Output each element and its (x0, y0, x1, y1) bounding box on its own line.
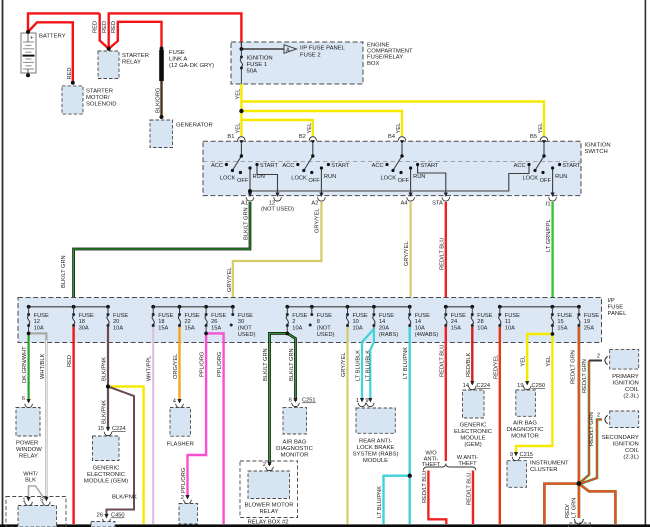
starter motor / solenoid (62, 86, 83, 114)
wire RED/LT GRN to primary coil (579, 361, 589, 484)
wire BLK/ORG fuse link to generator (160, 81, 162, 117)
svg-text:(GEM): (GEM) (464, 442, 481, 448)
wire RED/LT GRN splice to left drop (544, 484, 579, 524)
svg-text:50A: 50A (247, 69, 258, 75)
node A1 run junction (top) (248, 189, 252, 193)
svg-text:RED: RED (67, 67, 73, 79)
wire RED/LT BLU w/o anti-theft branch (428, 471, 446, 525)
svg-text:15A: 15A (185, 326, 195, 332)
fuse 22 15A (178, 313, 181, 327)
fuse 12 10A (27, 313, 30, 327)
svg-text:RELAY: RELAY (260, 509, 279, 515)
svg-text:4: 4 (173, 399, 176, 405)
svg-text:RELAY: RELAY (19, 454, 38, 460)
terminal B2 (309, 137, 317, 145)
svg-text:2: 2 (597, 413, 600, 419)
secondary ignition coil box (610, 411, 639, 428)
svg-text:B4: B4 (388, 134, 395, 140)
terminal 9 RABS (366, 398, 374, 407)
wire WHT/PPL fuse 18-15A down (152, 327, 154, 524)
svg-text:(RABS): (RABS) (379, 332, 398, 338)
svg-text:START: START (562, 163, 581, 169)
terminal A2 (318, 193, 326, 202)
svg-text:RED/LT BLU: RED/LT BLU (439, 238, 445, 270)
wire RED/LT GRN splice to right drop (579, 484, 616, 524)
svg-text:24: 24 (451, 319, 457, 325)
svg-text:RED/LT BLU: RED/LT BLU (467, 473, 473, 505)
terminal 2 blower motor relay (266, 462, 274, 471)
svg-text:LT BLU/BLK: LT BLU/BLK (365, 350, 371, 381)
svg-text:REAR ANTI-: REAR ANTI- (359, 439, 392, 445)
generic electronic module (GEM) box right (463, 390, 485, 418)
wire RED/LT GRN to secondary coil (580, 420, 603, 485)
small component box (179, 504, 198, 525)
svg-text:FUSE: FUSE (113, 313, 128, 319)
wire WHT/BLK jumper fork (29, 486, 45, 500)
fuse 11 10A (498, 313, 501, 327)
node BLK/PNK splice (106, 385, 110, 389)
svg-text:1: 1 (22, 498, 25, 504)
svg-text:LT BLU/PNK: LT BLU/PNK (377, 486, 383, 518)
wire RED/LT BLU STA to panel (445, 202, 447, 307)
terminal A1 (246, 193, 254, 202)
svg-text:9: 9 (365, 398, 368, 404)
svg-text:YEL: YEL (538, 123, 544, 134)
svg-text:GENERATOR: GENERATOR (176, 123, 213, 129)
svg-text:MONITOR: MONITOR (281, 453, 309, 459)
switch section 3 (393, 144, 446, 193)
RABS module box (356, 408, 395, 433)
wire run1 to acc4 link (250, 165, 529, 192)
svg-text:FUSE: FUSE (238, 313, 253, 319)
power window relay box (16, 408, 40, 437)
svg-text:C251: C251 (302, 398, 316, 404)
svg-text:RUN: RUN (253, 174, 265, 180)
svg-text:(2.3L): (2.3L) (623, 454, 638, 460)
svg-text:LINK A: LINK A (169, 57, 187, 63)
wire RED/LT BLU w anti-theft branch (472, 471, 474, 525)
box fragment under 26 (91, 522, 115, 527)
air bag diagnostic monitor box (right) (516, 390, 536, 416)
node fuse 2 output (top) (286, 332, 290, 336)
svg-text:14: 14 (463, 383, 469, 389)
svg-text:CLUSTER: CLUSTER (530, 467, 558, 473)
generic electronic module (GEM) box (93, 436, 120, 461)
node starter relay terminal (107, 47, 111, 51)
svg-text:OFF: OFF (308, 178, 320, 184)
svg-text:22: 22 (185, 319, 191, 325)
switch section 4 (535, 144, 553, 193)
svg-text:BLK/PNK: BLK/PNK (102, 357, 108, 381)
svg-text:19: 19 (517, 383, 523, 389)
svg-text:MODULE: MODULE (363, 458, 388, 464)
svg-text:A4: A4 (401, 201, 408, 207)
blower motor relay box (248, 471, 290, 499)
svg-text:14: 14 (379, 319, 385, 325)
svg-text:BLK/LT GRN: BLK/LT GRN (289, 348, 295, 381)
svg-text:LOCK: LOCK (523, 176, 539, 182)
svg-text:BLOWER MOTOR: BLOWER MOTOR (245, 503, 294, 509)
svg-text:(NOT: (NOT (238, 326, 252, 332)
terminal 6 power window relay (25, 399, 33, 408)
wire YEL branch from splice (108, 387, 144, 525)
svg-text:LOCK: LOCK (291, 176, 307, 182)
box fragment under RED/LT GRN terminal (569, 523, 591, 527)
wire RED battery to top rail (28, 13, 100, 32)
svg-text:19: 19 (584, 319, 590, 325)
svg-text:RED/LT GRN: RED/LT GRN (571, 350, 577, 384)
svg-text:OFF: OFF (540, 178, 552, 184)
svg-text:26: 26 (211, 319, 217, 325)
terminal B4 (398, 137, 406, 145)
svg-text:RED: RED (111, 21, 117, 33)
svg-text:15: 15 (98, 426, 104, 432)
bus A (fuses 12,18,20) (29, 306, 108, 308)
node LT BLU/PNK splice (408, 474, 412, 478)
svg-text:RED: RED (102, 21, 108, 33)
terminal 9 C215 (512, 452, 520, 461)
wire YEL fuse 15 to air bag monitor 19 (527, 334, 552, 384)
svg-text:FLASHER: FLASHER (167, 441, 194, 447)
svg-text:WINDOW: WINDOW (16, 447, 42, 453)
node fuse 2 output (286, 332, 290, 336)
wire inside box from entry (240, 42, 242, 49)
wire ORG/YEL fuse 22 to flasher (178, 327, 180, 402)
svg-text:STARTER: STARTER (86, 89, 113, 95)
svg-text:LT GRN: LT GRN (571, 498, 577, 518)
svg-text:5: 5 (40, 498, 43, 504)
svg-text:GRY/YEL: GRY/YEL (314, 208, 320, 233)
fuse 30 (NOT USED) (230, 313, 235, 327)
wire RED/LT GRN fuse 19 down (578, 327, 581, 484)
svg-text:STARTER: STARTER (122, 53, 149, 59)
svg-text:ACC: ACC (514, 163, 526, 169)
wire YEL junction to B4 (241, 111, 402, 136)
svg-text:FUSE: FUSE (353, 313, 368, 319)
fuse 10 10A (346, 313, 349, 327)
svg-text:GRY/YEL: GRY/YEL (227, 267, 233, 292)
svg-text:C224: C224 (112, 426, 126, 432)
svg-text:2: 2 (181, 495, 184, 501)
svg-text:ACC: ACC (372, 163, 384, 169)
svg-text:BLK: BLK (25, 478, 36, 484)
svg-text:10A: 10A (353, 326, 363, 332)
svg-text:COIL: COIL (625, 387, 639, 393)
svg-text:DIAGNOSTIC: DIAGNOSTIC (507, 427, 544, 433)
switch section 1 (232, 144, 277, 193)
node RED/LT GRN splice (top) (577, 481, 582, 486)
svg-text:6: 6 (22, 396, 25, 402)
bottom-left inner box (18, 506, 57, 527)
svg-text:FUSE: FUSE (211, 313, 226, 319)
label RED (x3 at starter relay) (93, 21, 117, 33)
terminal 15 C224 (104, 427, 112, 436)
svg-text:I/P: I/P (608, 298, 615, 304)
svg-text:15A: 15A (211, 326, 221, 332)
svg-text:BLK/LT GRN: BLK/LT GRN (244, 207, 250, 240)
svg-text:10: 10 (353, 319, 359, 325)
bus nodes (27, 305, 581, 309)
svg-text:B2: B2 (299, 134, 306, 140)
svg-text:RED/LT BLU: RED/LT BLU (422, 471, 428, 503)
svg-text:SYSTEM (RABS): SYSTEM (RABS) (353, 452, 399, 458)
terminal STA (442, 193, 450, 202)
svg-text:10A: 10A (415, 326, 425, 332)
switch section 2 (304, 144, 322, 193)
svg-text:(12 GA-DK GRY): (12 GA-DK GRY) (169, 63, 214, 69)
svg-text:18: 18 (158, 319, 164, 325)
wire RED/LT BLU fuse 24 to brace (445, 327, 447, 461)
svg-text:1: 1 (356, 398, 359, 404)
svg-text:26: 26 (97, 513, 103, 519)
terminal B1 (238, 137, 246, 145)
brace (423, 464, 476, 471)
svg-text:FUSE: FUSE (34, 313, 49, 319)
svg-text:2: 2 (597, 354, 600, 360)
arrow to I/P fuse panel fuse 2 (284, 45, 297, 54)
svg-text:PPL/ORG: PPL/ORG (181, 468, 187, 493)
svg-text:ORG/YEL: ORG/YEL (173, 354, 179, 379)
svg-text:10A: 10A (34, 326, 44, 332)
air bag diagnostic monitor box (left) (283, 407, 307, 434)
svg-text:YEL: YEL (236, 89, 242, 100)
svg-text:SECONDARY: SECONDARY (602, 435, 639, 441)
svg-text:(4WABS): (4WABS) (415, 332, 439, 338)
svg-text:15: 15 (557, 319, 563, 325)
svg-text:18: 18 (79, 319, 85, 325)
svg-text:AIR BAG: AIR BAG (513, 421, 537, 427)
svg-text:FUSE 2: FUSE 2 (300, 53, 321, 59)
svg-text:11: 11 (505, 319, 511, 325)
svg-text:2: 2 (263, 462, 266, 468)
bus C (fuses 2,8,10,14,14) (287, 306, 409, 308)
svg-text:BLK/LT GRN: BLK/LT GRN (263, 348, 269, 381)
svg-text:12: 12 (34, 319, 40, 325)
node LT BLU/PNK splice (top) (408, 474, 412, 478)
wire RED/BLK fuse 28 to GEM 14 (471, 327, 473, 384)
svg-text:BLK/PNK: BLK/PNK (102, 400, 108, 424)
terminal 5 (43, 497, 51, 506)
node generator terminal (160, 115, 164, 119)
svg-text:15A: 15A (557, 326, 567, 332)
svg-text:USED): USED) (317, 332, 335, 338)
svg-text:(NOT USED): (NOT USED) (261, 207, 294, 213)
battery (21, 30, 36, 77)
svg-text:8: 8 (317, 319, 320, 325)
svg-text:10A: 10A (292, 326, 302, 332)
svg-text:START: START (331, 163, 350, 169)
svg-text:15A: 15A (158, 326, 168, 332)
svg-text:POWER: POWER (16, 441, 38, 447)
wire RED drop to starter relay (100, 13, 109, 48)
svg-text:DK GRN/WHT: DK GRN/WHT (22, 346, 28, 383)
svg-text:FUSE: FUSE (505, 313, 520, 319)
node fuse 15 output (top) (551, 332, 555, 336)
svg-text:FUSE/RELAY: FUSE/RELAY (367, 55, 403, 61)
svg-text:YEL: YEL (521, 356, 527, 367)
terminal 12 (NOT USED) (274, 193, 282, 202)
svg-text:GENERIC: GENERIC (93, 466, 121, 472)
node fuse link top (160, 47, 164, 51)
svg-text:AIR BAG: AIR BAG (283, 440, 307, 446)
svg-text:IGNITION: IGNITION (613, 380, 639, 386)
svg-text:A1: A1 (241, 201, 248, 207)
node A1/ACC junction (248, 189, 252, 193)
node BLK/PNK splice (top) (106, 385, 110, 389)
svg-text:PANEL: PANEL (608, 311, 628, 317)
ignition fuse 1 element (240, 49, 242, 56)
svg-text:10A: 10A (113, 326, 123, 332)
fuse 26 15A (205, 313, 208, 327)
svg-text:A2: A2 (311, 201, 318, 207)
svg-text:FUSE: FUSE (185, 313, 200, 319)
svg-text:RED: RED (93, 21, 99, 33)
svg-text:IGNITION: IGNITION (613, 441, 639, 447)
svg-text:USED): USED) (238, 332, 256, 338)
svg-text:FUSE: FUSE (379, 313, 394, 319)
fuse link A (thick bar) (159, 50, 164, 81)
bottom-left outer box (6, 497, 66, 527)
svg-text:C450: C450 (111, 513, 125, 519)
svg-text:FUSE: FUSE (169, 50, 185, 56)
wire PPL/ORG branch down (206, 333, 224, 524)
starter relay (98, 51, 119, 79)
svg-text:FUSE: FUSE (584, 313, 599, 319)
svg-text:ACC: ACC (211, 163, 223, 169)
svg-text:PPL/ORG: PPL/ORG (200, 352, 206, 377)
bus B (fuses 18,22,26,30) (153, 306, 233, 308)
ignition switch box (203, 141, 581, 195)
fuse 18 15A (152, 313, 155, 327)
fuse 8 (NOT USED) (309, 313, 314, 327)
svg-text:OFF: OFF (398, 178, 410, 184)
svg-text:RELAY: RELAY (122, 60, 141, 66)
svg-text:ELECTRONIC: ELECTRONIC (454, 429, 493, 435)
wire LT GRN/PPL I1 to panel (551, 202, 553, 307)
page border left (2, 0, 4, 527)
node fuse 15 output (551, 332, 555, 336)
generator box (150, 120, 173, 148)
wire inside box to arrow A (241, 48, 284, 50)
svg-text:FUSE: FUSE (477, 313, 492, 319)
fuse 14 20A (RABS) (372, 313, 375, 327)
wire BLK/LT GRN A1 to panel (74, 202, 250, 307)
svg-text:WHT/PPL: WHT/PPL (147, 356, 153, 381)
svg-text:RED/: RED/ (565, 504, 571, 518)
svg-text:30: 30 (238, 319, 244, 325)
fuse stubs bus-to-element and element-to-exit (29, 307, 579, 334)
fuse 18 30A (72, 313, 75, 327)
svg-text:2: 2 (292, 319, 295, 325)
terminal 6 C251 air bag monitor (292, 398, 300, 407)
wire BLK/PNK fuse 20 to GEM 15 (107, 327, 109, 430)
svg-text:BLK/PNK: BLK/PNK (112, 495, 137, 501)
primary ignition coil box (610, 349, 639, 369)
svg-text:ACC: ACC (282, 163, 294, 169)
wire GRY/YEL A2 to panel (233, 202, 322, 307)
svg-text:PRIMARY: PRIMARY (612, 374, 639, 380)
svg-text:INSTRUMENT: INSTRUMENT (530, 461, 569, 467)
svg-text:YEL: YEL (396, 123, 402, 134)
svg-text:BLK/ORG: BLK/ORG (156, 88, 162, 113)
bus E (fuses 11,15,19) (500, 306, 579, 308)
bus D (fuses 24,28) (446, 306, 473, 308)
svg-text:20A: 20A (379, 326, 389, 332)
fuse 28 10A (471, 313, 474, 327)
svg-text:15A: 15A (451, 326, 461, 332)
svg-text:IGNITION: IGNITION (247, 56, 273, 62)
svg-text:OFF: OFF (237, 178, 249, 184)
fuse 2 10A (286, 313, 289, 327)
svg-text:MONITOR: MONITOR (511, 434, 539, 440)
flasher box (170, 408, 191, 437)
svg-text:LOCK: LOCK (381, 176, 397, 182)
svg-text:RELAY BOX #2: RELAY BOX #2 (247, 520, 288, 526)
wire RED fuse 18 down (72, 327, 74, 524)
fuse panel box (18, 298, 602, 343)
svg-text:FUSE: FUSE (415, 313, 430, 319)
svg-text:BATTERY: BATTERY (39, 34, 66, 40)
fuse 24 15A (444, 313, 447, 327)
svg-text:RUN: RUN (413, 174, 425, 180)
svg-text:25A: 25A (584, 326, 594, 332)
page border right (645, 0, 647, 527)
svg-text:LT BLU/PNK: LT BLU/PNK (403, 347, 409, 379)
svg-text:FUSE: FUSE (158, 313, 173, 319)
terminal at bottom of RED/LT GRN (574, 519, 583, 524)
page border bottom (0, 524, 650, 527)
node yellow junction (239, 109, 243, 113)
node fuse 26 output (top) (204, 332, 208, 336)
svg-text:RUN: RUN (324, 174, 336, 180)
wire BLK/LT GRN fuse2 to air bag monitor (287, 333, 295, 401)
svg-text:MOTOR/: MOTOR/ (86, 95, 110, 101)
fuse 20 10A (107, 313, 110, 327)
svg-text:LT BLU/BLK: LT BLU/BLK (356, 350, 362, 381)
wire YEL junction to B2 (241, 120, 312, 136)
svg-text:RED/LT BLU: RED/LT BLU (439, 345, 445, 377)
svg-text:LOCK BRAKE: LOCK BRAKE (357, 445, 395, 451)
svg-text:C250: C250 (532, 383, 546, 389)
svg-text:C224: C224 (477, 383, 491, 389)
svg-text:30A: 30A (79, 326, 89, 332)
svg-text:THEFT: THEFT (458, 461, 477, 467)
svg-text:FUSE: FUSE (79, 313, 94, 319)
svg-text:(2.3L): (2.3L) (623, 393, 638, 399)
terminal 4 flasher (176, 399, 184, 408)
svg-text:ELECTRONIC: ELECTRONIC (87, 472, 126, 478)
wire YEL fuse box down to junction (240, 84, 242, 136)
svg-text:FUSE: FUSE (608, 305, 624, 311)
wire PPL/ORG fuse 26 to box 2 (188, 333, 207, 498)
svg-text:10A: 10A (477, 326, 487, 332)
svg-text:10A: 10A (505, 326, 515, 332)
wire YEL junction to B5 (241, 102, 544, 137)
wire GRY/YEL fuse 10 down (346, 327, 348, 524)
svg-text:LOCK: LOCK (220, 176, 236, 182)
svg-text:IGNITION: IGNITION (585, 143, 611, 149)
node fuse box input junction (240, 47, 244, 51)
svg-text:B5: B5 (530, 134, 537, 140)
svg-text:START: START (420, 163, 439, 169)
svg-text:PPL/ORG: PPL/ORG (217, 352, 223, 377)
svg-text:WHT/BLK: WHT/BLK (40, 354, 46, 379)
wire RED battery to starter motor (28, 22, 73, 83)
terminal 19 C250 (523, 381, 531, 390)
svg-text:DIAGNOSTIC: DIAGNOSTIC (276, 446, 313, 452)
wire GRY/YEL A4 to panel (410, 202, 412, 307)
svg-text:(NOT: (NOT (317, 326, 331, 332)
